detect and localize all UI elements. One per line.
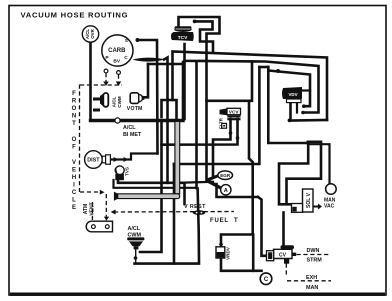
svg-text:MAN: MAN bbox=[306, 285, 318, 291]
component VCV bbox=[219, 108, 241, 129]
wire BI MET right riser bbox=[182, 62, 185, 119]
svg-text:TCV: TCV bbox=[178, 35, 188, 41]
wire VDV cap stub bbox=[301, 89, 310, 91]
component C callout bbox=[260, 273, 272, 285]
svg-text:VDV: VDV bbox=[288, 92, 297, 97]
svg-text:T: T bbox=[72, 121, 76, 127]
svg-text:DWN: DWN bbox=[307, 248, 320, 254]
dashed atm port bbox=[91, 202, 93, 221]
dashed P drop bbox=[105, 73, 107, 82]
wire VCV left leg to EGR bbox=[213, 119, 231, 177]
svg-text:V: V bbox=[72, 160, 76, 166]
svg-text:BI MET: BI MET bbox=[123, 132, 142, 138]
svg-text:STRM: STRM bbox=[307, 258, 323, 264]
node VDV right port dot bbox=[302, 104, 306, 108]
wire TVS line1 bbox=[118, 180, 185, 204]
arrow atm left bbox=[111, 210, 116, 215]
dashed atm down bbox=[105, 194, 107, 217]
node VCV left leg dot bbox=[229, 131, 233, 135]
dashed front-of-vehicle vertical bbox=[79, 85, 81, 193]
wire staple over BI MET bbox=[162, 100, 177, 119]
component V REST bbox=[184, 204, 238, 224]
svg-text:O: O bbox=[72, 106, 77, 112]
dashed under-carb horizontal bbox=[80, 84, 122, 86]
wire C-line lens bbox=[133, 58, 165, 62]
arrow BV bbox=[116, 82, 121, 87]
svg-text:BV: BV bbox=[113, 59, 120, 65]
wire jog down to CV bbox=[258, 197, 267, 256]
component A/CL CWM trumpet bbox=[93, 93, 122, 112]
svg-text:VCV: VCV bbox=[229, 110, 240, 116]
wire outer top H52 bbox=[173, 52, 328, 121]
wire C-line hook and drop to H2 bbox=[164, 58, 168, 183]
svg-text:C: C bbox=[264, 277, 269, 283]
svg-text:DIST: DIST bbox=[87, 158, 100, 164]
svg-text:CV: CV bbox=[279, 252, 287, 258]
dashed vrest line bbox=[114, 211, 234, 214]
svg-text:EXH: EXH bbox=[306, 275, 317, 281]
arrow P bbox=[103, 82, 108, 87]
wire dot line to SOLV loop bbox=[287, 142, 322, 204]
wire VDV left leg to H122 bbox=[291, 102, 328, 121]
svg-text:VOTM: VOTM bbox=[127, 106, 143, 112]
wire H64 bbox=[148, 63, 184, 66]
arrow dist 2 bbox=[124, 157, 129, 162]
wire U-turn into SOLV bbox=[279, 143, 308, 204]
node H142 dot bbox=[306, 141, 310, 145]
svg-text:TVS: TVS bbox=[125, 167, 130, 176]
node VDV stub dot bbox=[301, 111, 305, 115]
component CV bbox=[267, 245, 297, 263]
svg-text:C: C bbox=[124, 55, 128, 61]
svg-text:E: E bbox=[72, 205, 76, 211]
svg-text:O: O bbox=[72, 137, 77, 143]
svg-text:EGR: EGR bbox=[220, 173, 231, 178]
wire V266 bbox=[268, 67, 307, 143]
svg-text:R: R bbox=[72, 99, 77, 105]
wire VOTM feed bbox=[144, 64, 149, 97]
wire TCV top loop bbox=[179, 17, 220, 181]
component VDV bbox=[282, 87, 302, 103]
wire H61 drop to BI MET bbox=[183, 61, 186, 119]
svg-text:VAC: VAC bbox=[324, 204, 335, 210]
svg-text:C: C bbox=[72, 190, 77, 196]
wire bottom H263 bbox=[135, 249, 137, 262]
wire A/CL CWM inner corner bbox=[140, 122, 162, 252]
component TVS bbox=[114, 166, 129, 180]
wire A/CL OVR drop bbox=[89, 42, 92, 120]
node BI MET open circle bbox=[115, 118, 120, 123]
label FRONT OF VEHICLE bbox=[72, 91, 77, 211]
wire right trunk to VRDV bbox=[258, 67, 261, 164]
svg-text:V REST: V REST bbox=[184, 204, 206, 210]
wire H4 bbox=[174, 163, 259, 166]
svg-text:N: N bbox=[72, 114, 76, 120]
dashed BV drop bbox=[118, 75, 120, 83]
wire VRDV to C circle bbox=[221, 259, 262, 271]
arrow atm down bbox=[104, 217, 109, 221]
arrow atm right bbox=[100, 190, 105, 195]
node H122 dot bbox=[288, 119, 292, 123]
wire dot line to MAN VAC bbox=[309, 144, 330, 184]
component DIST bbox=[85, 151, 111, 169]
component SOL V bbox=[292, 189, 314, 212]
dashed EXH MAN horizontal bbox=[287, 280, 331, 282]
svg-text:T: T bbox=[234, 218, 238, 224]
svg-text:SOL V: SOL V bbox=[306, 192, 312, 208]
svg-text:A/CL: A/CL bbox=[123, 125, 136, 131]
wire DIST advance line bbox=[111, 154, 158, 160]
wire VDV right leg bbox=[296, 102, 298, 113]
component MAN VAC bbox=[324, 184, 336, 210]
svg-text:FUEL: FUEL bbox=[210, 218, 229, 224]
component A/CL CWM bottom bbox=[127, 226, 144, 249]
svg-text:L: L bbox=[72, 198, 76, 204]
svg-text:A: A bbox=[224, 188, 228, 194]
outline hose horizontal run bbox=[118, 194, 180, 199]
wire S-line from CARB bbox=[138, 40, 158, 154]
svg-text:A/CL: A/CL bbox=[128, 226, 141, 232]
dashed DWN STRM bbox=[297, 254, 332, 256]
wire TCV dot line bbox=[195, 21, 213, 52]
outline hose flare bbox=[114, 192, 118, 201]
wire H69 over VDV bbox=[268, 71, 310, 107]
svg-text:E: E bbox=[72, 168, 76, 174]
arrow sol v out bbox=[314, 204, 323, 210]
svg-text:OVR: OVR bbox=[90, 28, 95, 38]
dashed atm branch bbox=[80, 191, 99, 193]
node A callout bbox=[221, 185, 231, 195]
node S dot bbox=[136, 38, 140, 42]
component VOTM bbox=[127, 93, 145, 112]
arrow dist 1 bbox=[114, 157, 119, 162]
wire CV top feed bbox=[282, 213, 285, 247]
svg-text:ATM: ATM bbox=[83, 204, 89, 214]
node P open bbox=[104, 69, 108, 73]
node VCV right leg dot bbox=[236, 136, 240, 140]
svg-text:A/CL: A/CL bbox=[112, 96, 117, 107]
svg-text:F: F bbox=[72, 91, 76, 97]
component EGR bbox=[206, 171, 233, 190]
component CARB circle bbox=[102, 35, 133, 66]
wire TVS line2 bbox=[114, 180, 197, 188]
svg-text:F: F bbox=[72, 145, 76, 151]
svg-text:VENT: VENT bbox=[90, 202, 96, 215]
wire H2 VCV to left bbox=[162, 119, 238, 145]
component ATM VENT bbox=[83, 202, 113, 231]
svg-text:CWM: CWM bbox=[117, 96, 122, 108]
component A/CL OVR circle bbox=[82, 26, 98, 42]
svg-text:CARB: CARB bbox=[108, 48, 126, 54]
component TCV bbox=[171, 26, 194, 41]
wire A/CL BI MET main bbox=[91, 119, 184, 122]
wire H197 under A bbox=[217, 184, 259, 197]
svg-text:VACUUM HOSE ROUTING: VACUUM HOSE ROUTING bbox=[21, 10, 129, 19]
wire inner top H61 bbox=[185, 44, 319, 113]
node TCV dot bbox=[193, 20, 197, 24]
svg-text:VRDV: VRDV bbox=[226, 246, 231, 260]
node H69 dot bbox=[276, 69, 280, 73]
component VRDV bbox=[216, 246, 231, 260]
dashed EXH MAN bbox=[285, 264, 287, 275]
node BV open bbox=[117, 71, 121, 75]
node CWM stem dot bbox=[134, 256, 138, 260]
arrow into VRDV bbox=[219, 244, 224, 248]
svg-text:H: H bbox=[72, 175, 76, 181]
outline hose vertical run bbox=[175, 122, 180, 194]
